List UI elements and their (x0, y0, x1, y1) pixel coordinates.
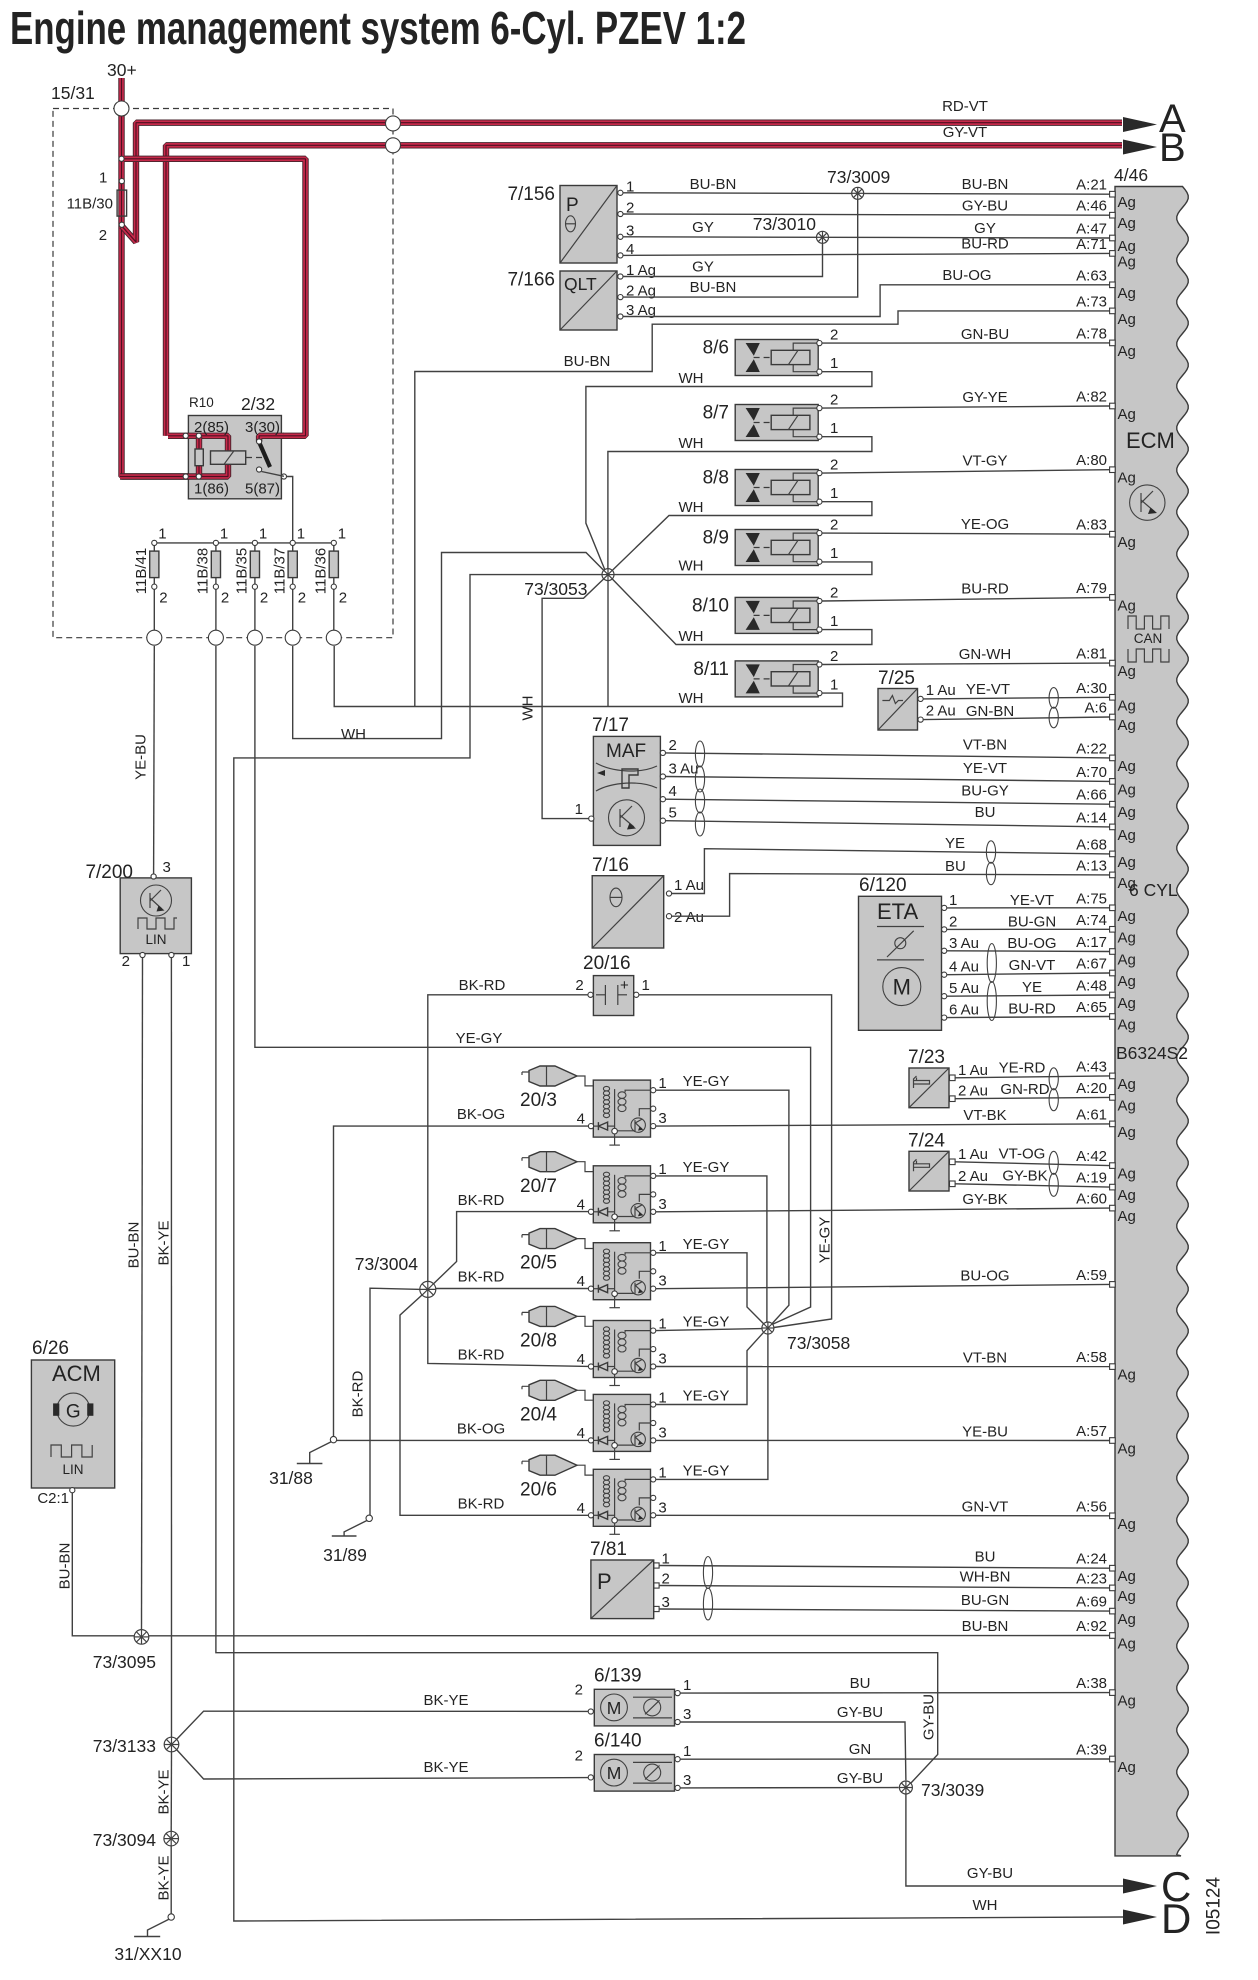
wire WH from fuse 11B/37 (293, 553, 605, 739)
ECM pin A:46 (1110, 212, 1116, 218)
ECM pin A:82 (1110, 403, 1116, 409)
component 6/120 ETA throttle unit (859, 896, 942, 1030)
svg-text:11B/41: 11B/41 (133, 548, 150, 594)
wire 7/16 pin2 BU to A:13 (672, 874, 1110, 917)
svg-text:3: 3 (658, 1110, 666, 1127)
svg-text:20/8: 20/8 (520, 1331, 557, 1352)
7/200 pin 2 (140, 952, 145, 957)
node 30+ junction (119, 156, 124, 161)
svg-text:YE-RD: YE-RD (999, 1059, 1046, 1076)
svg-text:11B/38: 11B/38 (195, 548, 212, 594)
svg-text:YE-GY: YE-GY (683, 1236, 730, 1253)
svg-text:A:66: A:66 (1076, 787, 1107, 804)
6/139 pin 3 wire GY-BU (675, 1719, 680, 1724)
svg-text:BU: BU (945, 858, 966, 875)
wire RD-VT to arrow A (fuse 11B/30 out) (122, 123, 1122, 242)
svg-text:7/25: 7/25 (878, 668, 915, 689)
svg-text:BU-OG: BU-OG (960, 1267, 1009, 1284)
svg-text:3: 3 (683, 1772, 691, 1789)
wire 8/10 pin2 BU-RD to ECM (822, 597, 1110, 601)
relay 2/32 internal red loop (120, 436, 228, 477)
injector 8/8 pin 1 (817, 499, 822, 504)
svg-text:B: B (1159, 126, 1186, 170)
ECM pin A:66 (1110, 801, 1116, 807)
ignition coil 20/7 (591, 1166, 651, 1231)
svg-text:7/166: 7/166 (507, 270, 555, 291)
svg-text:I05124: I05124 (1204, 1877, 1225, 1936)
svg-text:1: 1 (830, 545, 838, 562)
relay pin circles (183, 433, 188, 438)
svg-text:3 Au: 3 Au (949, 935, 979, 952)
ECM pin A:6 (1110, 714, 1116, 720)
svg-text:RD-VT: RD-VT (942, 98, 988, 115)
svg-text:A:65: A:65 (1076, 999, 1107, 1016)
svg-text:YE-GY: YE-GY (816, 1217, 833, 1264)
svg-text:BK-RD: BK-RD (458, 1495, 505, 1512)
svg-text:2: 2 (339, 590, 347, 607)
svg-text:YE-GY: YE-GY (683, 1388, 730, 1405)
svg-text:Ag: Ag (1118, 1516, 1136, 1533)
ECM pin A:48 (1110, 992, 1116, 998)
svg-text:A:38: A:38 (1076, 1675, 1107, 1692)
svg-text:BU-RD: BU-RD (1008, 1001, 1056, 1018)
ECM pin A:24 (1110, 1565, 1116, 1571)
svg-text:YE-BU: YE-BU (132, 734, 149, 780)
ECM pin A:67 (1110, 970, 1116, 976)
svg-text:BK-YE: BK-YE (423, 1759, 468, 1776)
wire 20/16 pin2 BK-RD to splice 73/3004 (428, 995, 588, 1283)
7/81 pin 1 wire BU (654, 1563, 659, 1568)
wire GY-VT to arrow B (166, 145, 1122, 436)
svg-text:M: M (607, 1698, 622, 1718)
wire 8/11 pin2 GN-WH to ECM (822, 663, 1110, 664)
svg-text:1: 1 (297, 526, 305, 543)
svg-text:A:63: A:63 (1076, 267, 1107, 284)
ECM pin A:14 (1110, 824, 1116, 830)
svg-text:Ag: Ag (1118, 875, 1136, 892)
svg-text:3: 3 (683, 1706, 691, 1723)
svg-text:Ag: Ag (1118, 1017, 1136, 1034)
svg-text:GY: GY (692, 219, 714, 236)
svg-text:Ag: Ag (1118, 343, 1136, 360)
svg-text:Ag: Ag (1118, 285, 1136, 302)
svg-text:A:56: A:56 (1076, 1498, 1107, 1515)
svg-text:GN: GN (849, 1741, 872, 1758)
svg-text:2 Au: 2 Au (926, 703, 956, 720)
ground 31/XX10 (114, 1914, 181, 1964)
svg-text:A:79: A:79 (1076, 580, 1107, 597)
wire relay 3(30) interior (259, 436, 284, 442)
svg-text:4: 4 (577, 1425, 585, 1442)
svg-text:31/89: 31/89 (323, 1545, 367, 1565)
ECM CAN symbol (1128, 616, 1169, 629)
svg-text:A:57: A:57 (1076, 1423, 1107, 1440)
svg-text:WH: WH (973, 1897, 998, 1914)
connector circle on 15/31 top edge (114, 101, 129, 116)
injector 8/7 pin 1 (817, 434, 822, 439)
svg-text:BU: BU (975, 804, 996, 821)
svg-text:YE-GY: YE-GY (683, 1314, 730, 1331)
svg-text:Ag: Ag (1118, 1693, 1136, 1710)
svg-text:A:73: A:73 (1076, 293, 1107, 310)
svg-text:20/5: 20/5 (520, 1253, 557, 1274)
ECM pin A:43 (1110, 1073, 1116, 1079)
ECM pin A:42 (1110, 1163, 1116, 1169)
svg-text:BU-GN: BU-GN (961, 1592, 1009, 1609)
svg-text:20/16: 20/16 (583, 953, 631, 974)
svg-text:73/3053: 73/3053 (524, 579, 587, 599)
wire splice down leg (607, 575, 609, 707)
svg-text:Ag: Ag (1118, 194, 1136, 211)
svg-text:1: 1 (338, 526, 346, 543)
7/200 pin 3 top (151, 874, 156, 879)
connector circle 11B/35 on 15/31 bottom edge (247, 630, 262, 645)
svg-text:BU-BN: BU-BN (962, 1618, 1009, 1635)
coil 20/3 pins (651, 1088, 656, 1093)
svg-text:YE-BU: YE-BU (962, 1423, 1008, 1440)
component 6/140 motor valve (594, 1755, 674, 1792)
wire to A:73 (BU-BN loop) (415, 311, 1110, 707)
wire 7/200 pin2 BU-BN down to 73/3095 (142, 958, 143, 1631)
svg-text:31/XX10: 31/XX10 (114, 1944, 181, 1964)
6/140 pin 3 wire GY-BU (675, 1785, 680, 1790)
wire 20/16 pin1 YE-GY to splice 73/3058 (639, 995, 832, 1328)
svg-text:1: 1 (220, 526, 228, 543)
fuse bus from relay 87 (154, 542, 333, 544)
svg-text:A:23: A:23 (1076, 1570, 1107, 1587)
svg-text:BU-RD: BU-RD (961, 236, 1009, 253)
svg-text:Ag: Ag (1118, 854, 1136, 871)
svg-text:5 Au: 5 Au (949, 980, 979, 997)
component 7/24 cam sensor (909, 1151, 949, 1191)
svg-text:CAN: CAN (1134, 631, 1163, 646)
wire 20/6 pin4 BK-RD from 73/3004 (400, 1293, 588, 1515)
svg-text:A:24: A:24 (1076, 1551, 1107, 1568)
svg-text:11B/37: 11B/37 (271, 548, 288, 594)
component 7/17 MAF sensor (593, 736, 660, 845)
svg-text:1: 1 (683, 1677, 691, 1694)
svg-text:4: 4 (577, 1111, 585, 1128)
svg-text:1: 1 (642, 977, 650, 994)
svg-text:MAF: MAF (606, 741, 646, 762)
injector 8/6 (735, 340, 819, 376)
svg-text:WH: WH (519, 696, 536, 721)
svg-text:1: 1 (830, 613, 838, 630)
svg-text:A:61: A:61 (1076, 1106, 1107, 1123)
wire 30+ main vertical (122, 78, 189, 477)
splice 73/3094 (164, 1831, 179, 1846)
wire YE-GY long feed from fuse 11B/35 (255, 646, 811, 1325)
svg-text:1: 1 (830, 485, 838, 502)
wire GY-BU chain from fuse 11B/38 (216, 646, 938, 1784)
wire relay 5(87) output (262, 472, 284, 477)
svg-text:3: 3 (658, 1351, 666, 1368)
svg-text:LIN: LIN (62, 1462, 83, 1477)
svg-text:BU: BU (850, 1675, 871, 1692)
svg-text:P: P (566, 195, 579, 216)
wire 7/156 pin1 BU-BN to A:21 (623, 193, 1110, 194)
wire 6/140 pin3 GY-BU to 73/3039 (680, 1787, 899, 1789)
wire 7/24 pin2 GY-BK (955, 1184, 1110, 1187)
svg-text:WH: WH (679, 370, 704, 387)
wire 7/156 pin3 GY to A:47 (623, 237, 1110, 238)
svg-text:BK-YE: BK-YE (155, 1855, 172, 1900)
wire 8/6 pin2 GN-BU to ECM (822, 342, 1110, 344)
wire 20/8 pin4 BK-RD from 73/3004 (428, 1295, 589, 1366)
fuse 11B/30 (117, 190, 127, 216)
wire 7/23 pin2 GN-RD (955, 1097, 1110, 1098)
ECM pin A:63 (1110, 282, 1116, 288)
svg-text:C2:1: C2:1 (37, 1490, 69, 1507)
svg-text:GN-WH: GN-WH (959, 646, 1012, 663)
wire 20/5 pin1 to 73/3058 (656, 1253, 765, 1325)
svg-text:BU-RD: BU-RD (961, 580, 1009, 597)
6/139 pin 2 (588, 1709, 593, 1714)
svg-text:3 Au: 3 Au (669, 761, 699, 778)
coil 20/3 bracket pins1/3 (625, 1090, 650, 1092)
svg-text:A:14: A:14 (1076, 809, 1107, 826)
svg-text:Ag: Ag (1118, 1636, 1136, 1653)
svg-text:7/23: 7/23 (908, 1047, 945, 1068)
wire 20/8 pin3 VT-BN to ECM (656, 1366, 1110, 1368)
wire 7/166 pin2 BU-BN to splice 73/3009 (623, 199, 858, 297)
svg-text:4/46: 4/46 (1114, 165, 1148, 185)
svg-text:7/200: 7/200 (85, 862, 133, 883)
svg-text:2: 2 (669, 737, 677, 754)
ECM pin A:73 (1110, 308, 1116, 314)
ECM pin A:57 (1110, 1438, 1116, 1444)
svg-text:15/31: 15/31 (51, 83, 95, 103)
svg-text:BK-YE: BK-YE (423, 1692, 468, 1709)
svg-text:A:82: A:82 (1076, 389, 1107, 406)
svg-text:Ag: Ag (1118, 995, 1136, 1012)
svg-text:Ag: Ag (1118, 1208, 1136, 1225)
svg-text:6 CYL: 6 CYL (1129, 880, 1178, 900)
svg-text:1: 1 (830, 677, 838, 694)
ECM pin A:21 (1110, 191, 1116, 197)
splice 73/3053 (602, 569, 614, 581)
ECM pin A:80 (1110, 467, 1116, 473)
svg-text:4: 4 (577, 1500, 585, 1517)
svg-text:B6324S2: B6324S2 (1116, 1043, 1188, 1063)
fuse 11B/30 pin 2 (119, 222, 124, 227)
svg-text:Ag: Ag (1118, 827, 1136, 844)
svg-text:3(30): 3(30) (245, 419, 280, 436)
svg-text:WH: WH (679, 558, 704, 575)
svg-text:BU-BN: BU-BN (564, 353, 611, 370)
wire ACM BU-BN to 73/3095 (72, 1493, 135, 1636)
injector 8/7 pin 2 (817, 406, 822, 411)
svg-text:WH: WH (679, 690, 704, 707)
twisted quad ETA (987, 944, 996, 1021)
6/139 pin 1 wire BU (675, 1691, 680, 1696)
svg-text:A:81: A:81 (1076, 646, 1107, 663)
svg-text:A:60: A:60 (1076, 1191, 1107, 1208)
svg-text:A:70: A:70 (1076, 764, 1107, 781)
wire 7/16 pin1 YE to A:68 (672, 849, 1110, 894)
svg-text:GN-VT: GN-VT (1009, 957, 1056, 974)
svg-text:1 Au: 1 Au (958, 1146, 988, 1163)
svg-text:1: 1 (830, 355, 838, 372)
coil 20/5 bracket pins1/3 (625, 1253, 650, 1255)
svg-text:A:20: A:20 (1076, 1080, 1107, 1097)
svg-text:Ag: Ag (1118, 534, 1136, 551)
svg-text:20/7: 20/7 (520, 1176, 557, 1197)
svg-text:Ag: Ag (1118, 758, 1136, 775)
connector circle 11B/41 on 15/31 bottom edge (147, 630, 162, 645)
svg-text:R10: R10 (189, 395, 214, 410)
component 7/166 oil level sensor QLT (560, 271, 617, 330)
svg-text:P: P (597, 1569, 612, 1594)
svg-text:A:39: A:39 (1076, 1742, 1107, 1759)
svg-text:Ag: Ag (1118, 717, 1136, 734)
svg-text:WH: WH (679, 499, 704, 516)
wire 8/11 WH return + bus to fuse 11B/36 and BU-BN join (334, 646, 842, 707)
svg-text:4 Au: 4 Au (949, 959, 979, 976)
ECM pin A:92 (1110, 1633, 1116, 1639)
svg-text:GY-BU: GY-BU (920, 1694, 937, 1740)
svg-text:6/139: 6/139 (594, 1665, 642, 1686)
svg-text:GN-RD: GN-RD (1000, 1081, 1049, 1098)
svg-text:Ag: Ag (1118, 470, 1136, 487)
arrow D (1123, 1910, 1157, 1925)
MAF pin 4 wire BU-GY (660, 797, 665, 802)
injector 8/9 pin 2 (817, 531, 822, 536)
ETA pin 4 Au wire GN-VT (942, 972, 947, 977)
svg-text:GY-VT: GY-VT (943, 124, 987, 141)
svg-text:8/11: 8/11 (693, 659, 729, 680)
svg-text:ECM: ECM (1126, 428, 1175, 453)
svg-text:3: 3 (163, 859, 171, 876)
wire 20/7 pin4 BK-RD to 73/3004 (431, 1212, 589, 1287)
ECM pin A:38 (1110, 1690, 1116, 1696)
wire 7/24 pin1 VT-OG (955, 1162, 1110, 1166)
svg-text:8/7: 8/7 (703, 403, 729, 424)
ECM pin A:19 (1110, 1184, 1116, 1190)
svg-text:VT-GY: VT-GY (962, 453, 1007, 470)
ECM pin A:70 (1110, 779, 1116, 785)
relay switch arm (260, 443, 271, 467)
svg-text:2: 2 (221, 590, 229, 607)
svg-text:8/6: 8/6 (703, 338, 729, 359)
svg-text:BU-GY: BU-GY (961, 783, 1009, 800)
svg-text:BK-OG: BK-OG (457, 1106, 505, 1123)
svg-text:M: M (607, 1763, 622, 1783)
svg-text:A:17: A:17 (1076, 934, 1107, 951)
svg-text:+: + (620, 977, 629, 994)
svg-text:BK-RD: BK-RD (458, 1347, 505, 1364)
svg-text:YE-GY: YE-GY (683, 1073, 730, 1090)
ECM pin A:56 (1110, 1513, 1116, 1519)
svg-text:73/3039: 73/3039 (921, 1780, 984, 1800)
svg-text:VT-BK: VT-BK (963, 1107, 1006, 1124)
svg-text:BU-OG: BU-OG (1007, 935, 1056, 952)
svg-text:Ag: Ag (1118, 1441, 1136, 1458)
wire 7/166 pin3 to corner joining BU-OG A:63 (623, 285, 1110, 317)
ECM pin A:23 (1110, 1585, 1116, 1591)
coil 20/5 pins (651, 1250, 656, 1255)
svg-text:7/24: 7/24 (908, 1130, 945, 1151)
svg-text:Ag: Ag (1118, 1588, 1136, 1605)
ECM pin A:59 (1110, 1282, 1116, 1288)
svg-text:BU-BN: BU-BN (690, 279, 737, 296)
connector circle GY-VT x 15/31 right edge (386, 138, 401, 153)
svg-text:WH: WH (679, 435, 704, 452)
component 6/139 motor valve (594, 1689, 674, 1726)
svg-text:A:22: A:22 (1076, 740, 1107, 757)
svg-text:3: 3 (658, 1424, 666, 1441)
svg-text:1: 1 (683, 1743, 691, 1760)
svg-text:GY-BU: GY-BU (967, 1865, 1013, 1882)
injector 8/9 (735, 530, 819, 566)
twisted pairs MAF (695, 741, 704, 792)
svg-text:2: 2 (575, 977, 583, 994)
svg-text:7/81: 7/81 (590, 1539, 627, 1560)
svg-text:1 Au: 1 Au (926, 682, 956, 699)
wire 20/7 pin1 to 73/3058 (656, 1176, 767, 1322)
svg-text:ETA: ETA (877, 899, 918, 924)
ACM pin C2:1 (70, 1488, 75, 1493)
svg-text:WH-BN: WH-BN (960, 1569, 1011, 1586)
svg-text:2 Au: 2 Au (958, 1083, 988, 1100)
injector 8/7 (735, 405, 819, 441)
svg-text:WH: WH (341, 726, 366, 743)
connector circle 11B/38 on 15/31 bottom edge (208, 630, 223, 645)
svg-text:Ag: Ag (1118, 804, 1136, 821)
coil 20/7 pins (651, 1173, 656, 1178)
splice 73/3058 (762, 1322, 774, 1334)
ECM pin A:17 (1110, 949, 1116, 955)
svg-text:BU-BN: BU-BN (690, 176, 737, 193)
wire 7/156 pin2 GY-BU to A:46 (623, 214, 1110, 215)
svg-text:A:69: A:69 (1076, 1594, 1107, 1611)
component 7/156 pressure/temp sensor (560, 186, 617, 264)
MAF pin 2 wire VT-BN (660, 750, 665, 755)
svg-text:M: M (893, 975, 911, 1000)
svg-text:2: 2 (122, 953, 130, 970)
svg-text:GN-VT: GN-VT (962, 1498, 1009, 1515)
svg-text:BK-RD: BK-RD (458, 1192, 505, 1209)
injector 8/8 (735, 470, 819, 506)
ECM pin A:13 (1110, 872, 1116, 878)
svg-text:1: 1 (575, 801, 583, 818)
svg-text:ACM: ACM (52, 1361, 101, 1386)
svg-text:73/3004: 73/3004 (355, 1254, 419, 1274)
svg-text:8/9: 8/9 (703, 528, 729, 549)
7/81 pin 3 wire BU-GN (654, 1606, 659, 1611)
wire 20/4 pin1 to 73/3058 (656, 1332, 764, 1405)
wire 30+ to relay pin 3(30) (124, 159, 306, 436)
component 7/200 control module (120, 878, 191, 954)
ECM pin A:78 (1110, 340, 1116, 346)
wire 8/7 WH return (608, 437, 872, 569)
ECM connector 4/46 block (1115, 187, 1188, 1856)
svg-text:3: 3 (658, 1273, 666, 1290)
svg-text:2 Au: 2 Au (674, 909, 704, 926)
spark plug 20/4 (529, 1380, 577, 1400)
svg-text:2: 2 (949, 913, 957, 930)
injector 8/6 pin 1 (817, 369, 822, 374)
svg-text:2 Au: 2 Au (958, 1168, 988, 1185)
svg-text:7/16: 7/16 (592, 855, 629, 876)
coil 20/7 bracket pins1/3 (625, 1176, 650, 1178)
svg-text:GY: GY (692, 259, 714, 276)
ignition coil 20/6 (591, 1469, 651, 1534)
svg-text:5: 5 (669, 805, 677, 822)
ETA pin 6 Au wire BU-RD (942, 1015, 947, 1020)
wire GY-BU to arrow C (906, 1794, 1123, 1886)
svg-text:BU-BN: BU-BN (962, 176, 1009, 193)
